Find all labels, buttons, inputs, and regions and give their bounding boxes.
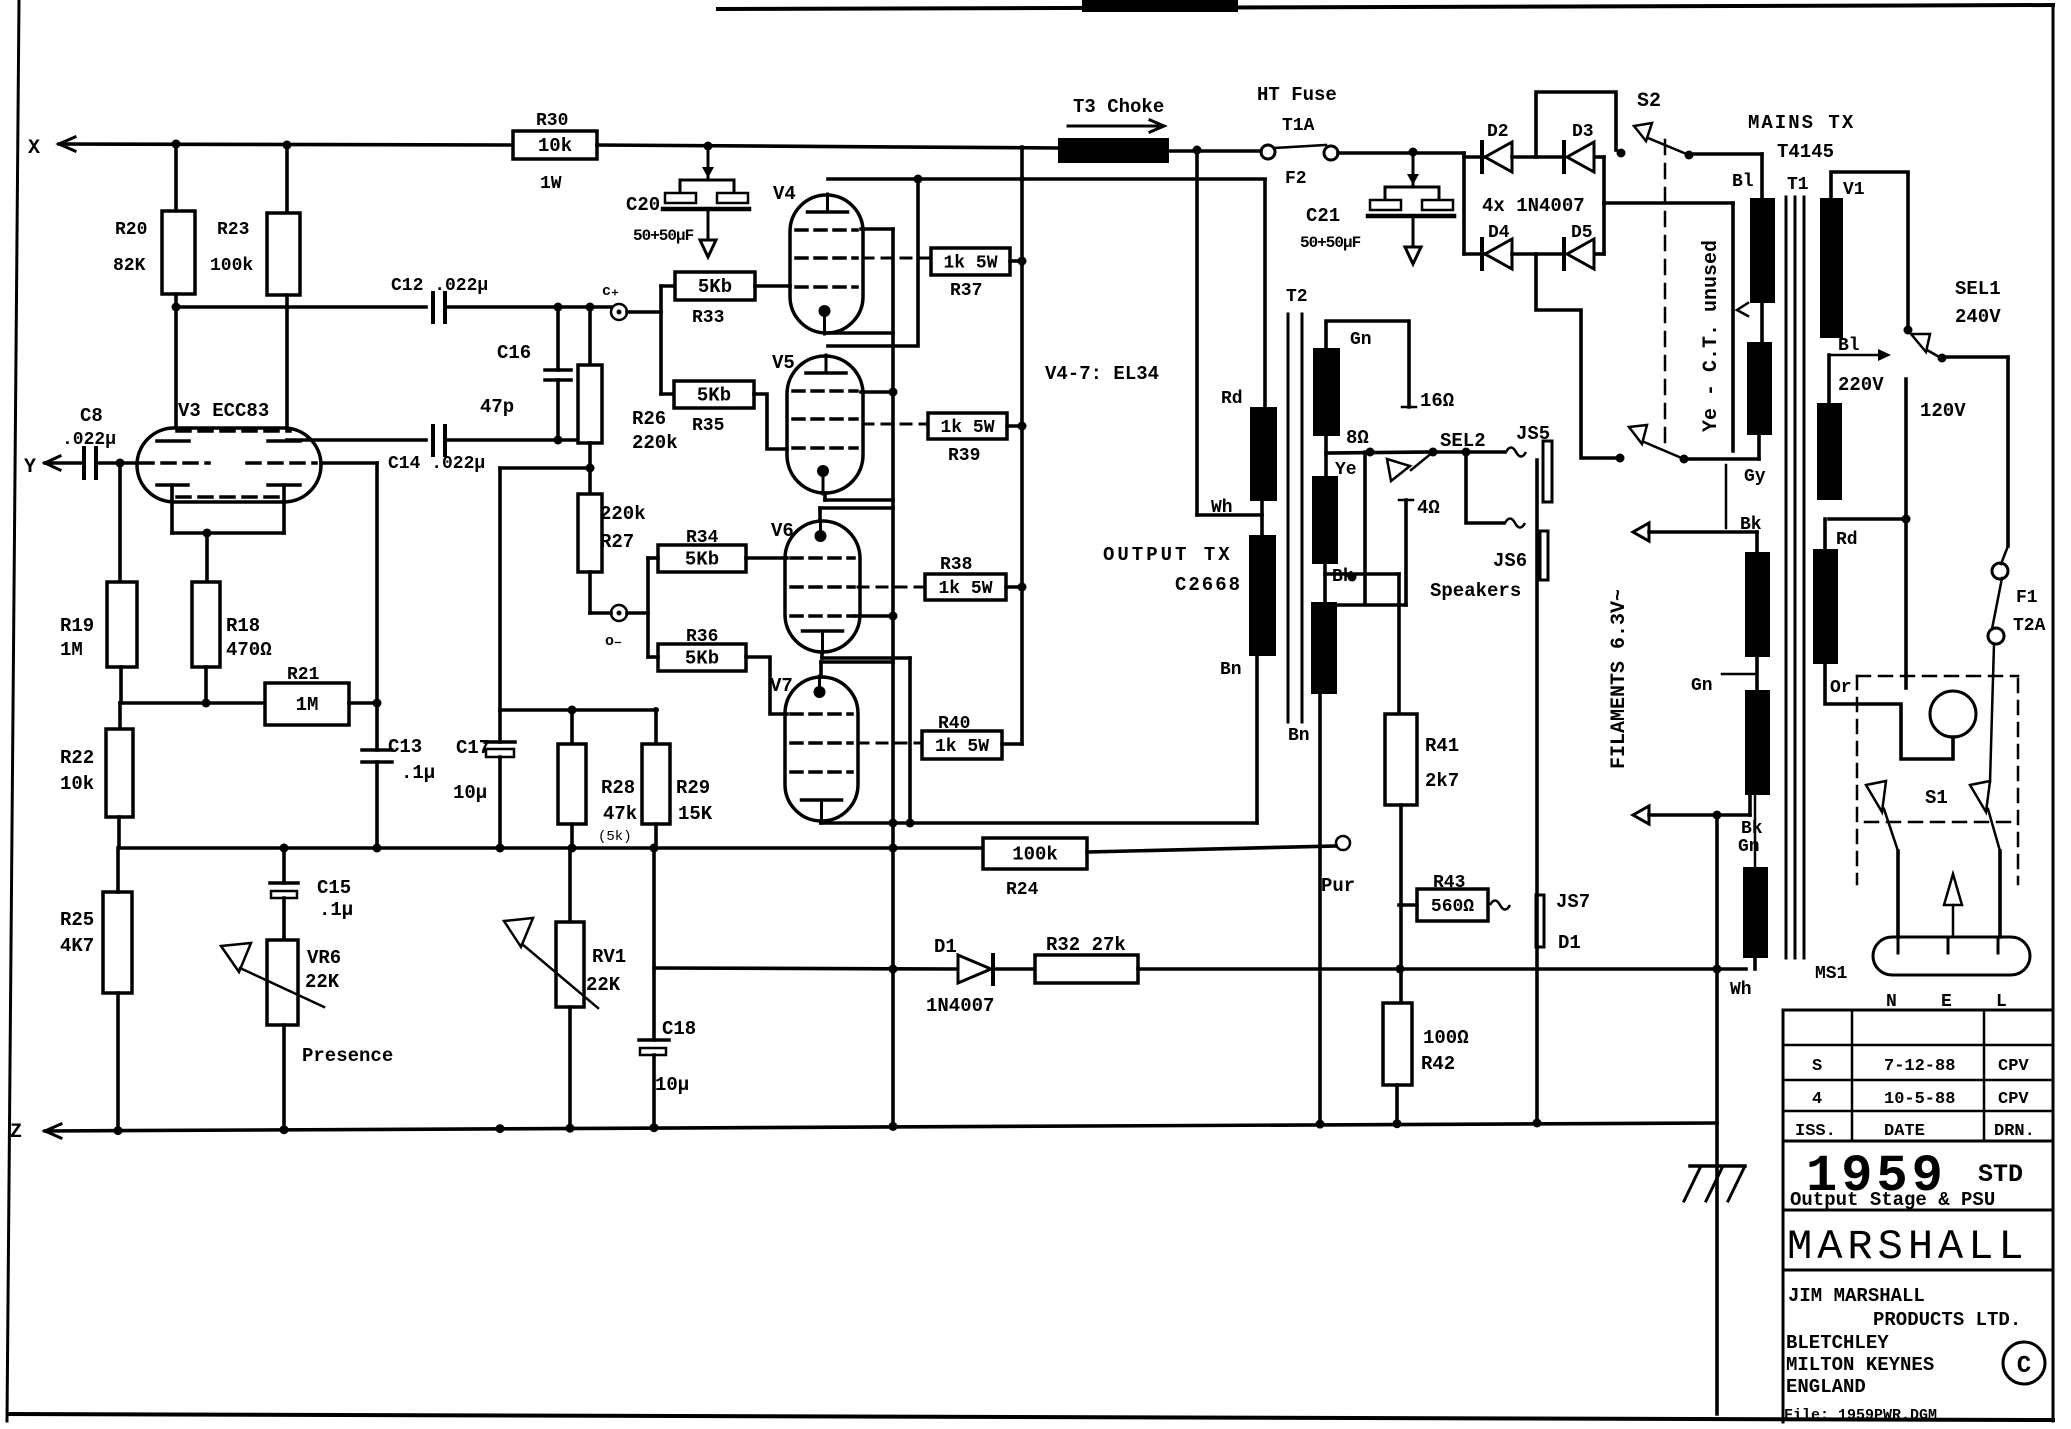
svg-text:C8: C8 — [80, 405, 103, 427]
svg-text:100Ω: 100Ω — [1423, 1027, 1469, 1049]
svg-text:Bk: Bk — [1332, 567, 1354, 587]
svg-text:C12 .022µ: C12 .022µ — [391, 276, 488, 296]
svg-text:.022µ: .022µ — [62, 430, 116, 450]
svg-text:Gn: Gn — [1691, 676, 1713, 696]
svg-text:C: C — [2017, 1353, 2031, 1380]
svg-text:R19: R19 — [60, 615, 94, 637]
svg-text:Z: Z — [10, 1121, 22, 1144]
svg-text:.1µ: .1µ — [319, 899, 353, 921]
svg-text:Ye - C.T. unused: Ye - C.T. unused — [1700, 240, 1723, 432]
svg-text:HT Fuse: HT Fuse — [1257, 84, 1337, 106]
svg-text:4x 1N4007: 4x 1N4007 — [1482, 195, 1585, 217]
svg-text:CPV: CPV — [1998, 1057, 2029, 1076]
svg-text:JIM MARSHALL: JIM MARSHALL — [1788, 1285, 1925, 1307]
svg-text:10k: 10k — [60, 773, 94, 795]
svg-text:MILTON KEYNES: MILTON KEYNES — [1786, 1354, 1934, 1376]
svg-text:R26: R26 — [632, 408, 666, 430]
svg-text:R30: R30 — [536, 111, 568, 131]
svg-text:D1: D1 — [1558, 932, 1581, 954]
svg-text:C20: C20 — [626, 194, 660, 216]
svg-text:S2: S2 — [1637, 90, 1661, 113]
svg-text:V4: V4 — [773, 183, 796, 205]
svg-text:MAINS TX: MAINS TX — [1748, 112, 1855, 134]
svg-text:R20: R20 — [115, 220, 147, 240]
svg-text:Output Stage & PSU: Output Stage & PSU — [1790, 1189, 1995, 1211]
svg-text:R33: R33 — [692, 308, 724, 328]
svg-text:Presence: Presence — [302, 1045, 393, 1067]
svg-text:T3 Choke: T3 Choke — [1073, 96, 1164, 118]
svg-text:R23: R23 — [217, 220, 249, 240]
svg-text:C13: C13 — [388, 736, 422, 758]
svg-text:SEL1: SEL1 — [1955, 278, 2001, 300]
svg-text:F2: F2 — [1285, 169, 1307, 189]
svg-text:1k 5W: 1k 5W — [940, 418, 994, 438]
svg-text:c₊: c₊ — [602, 283, 619, 300]
svg-text:BLETCHLEY: BLETCHLEY — [1786, 1332, 1889, 1354]
svg-text:Bk: Bk — [1740, 515, 1762, 535]
svg-text:D3: D3 — [1572, 122, 1594, 142]
svg-text:Wh: Wh — [1730, 980, 1752, 1000]
svg-text:F1: F1 — [2016, 588, 2038, 608]
svg-text:R22: R22 — [60, 747, 94, 769]
svg-text:D2: D2 — [1487, 122, 1509, 142]
svg-text:220k: 220k — [632, 432, 678, 454]
svg-text:10k: 10k — [538, 135, 572, 157]
svg-text:R24: R24 — [1006, 880, 1039, 900]
svg-text:ISS.: ISS. — [1795, 1122, 1836, 1141]
svg-text:V3 ECC83: V3 ECC83 — [178, 400, 269, 422]
svg-text:8Ω: 8Ω — [1346, 427, 1369, 449]
svg-text:1k 5W: 1k 5W — [943, 254, 997, 274]
svg-text:DATE: DATE — [1884, 1122, 1925, 1141]
svg-text:560Ω: 560Ω — [1431, 897, 1474, 917]
svg-text:FILAMENTS 6.3V~: FILAMENTS 6.3V~ — [1608, 589, 1631, 769]
svg-text:Gn: Gn — [1738, 837, 1760, 857]
svg-text:R27: R27 — [600, 531, 634, 553]
svg-text:V1: V1 — [1843, 180, 1865, 200]
svg-text:C21: C21 — [1306, 205, 1340, 227]
svg-text:5Kb: 5Kb — [685, 648, 719, 670]
svg-text:Y: Y — [24, 456, 36, 479]
svg-text:Gy: Gy — [1744, 467, 1766, 487]
svg-text:T2A: T2A — [2013, 616, 2046, 636]
svg-text:R28: R28 — [601, 777, 635, 799]
svg-text:1W: 1W — [540, 174, 562, 194]
svg-text:V5: V5 — [772, 352, 795, 374]
svg-text:100k: 100k — [210, 256, 253, 276]
svg-text:Bl: Bl — [1838, 336, 1860, 356]
svg-text:JS6: JS6 — [1493, 550, 1527, 572]
svg-text:R42: R42 — [1421, 1053, 1455, 1075]
svg-text:1M: 1M — [296, 694, 319, 716]
svg-text:22K: 22K — [305, 971, 340, 993]
svg-text:Ye: Ye — [1335, 460, 1357, 480]
svg-text:SEL2: SEL2 — [1440, 430, 1486, 452]
svg-text:Rd: Rd — [1221, 389, 1243, 409]
svg-text:S: S — [1812, 1057, 1822, 1076]
svg-text:Speakers: Speakers — [1430, 580, 1521, 602]
svg-text:PRODUCTS LTD.: PRODUCTS LTD. — [1873, 1309, 2021, 1331]
svg-text:OUTPUT TX: OUTPUT TX — [1103, 544, 1233, 566]
svg-text:DRN.: DRN. — [1994, 1122, 2035, 1141]
svg-text:47k: 47k — [603, 803, 637, 825]
svg-text:470Ω: 470Ω — [226, 639, 272, 661]
svg-text:47p: 47p — [480, 396, 514, 418]
svg-text:1k 5W: 1k 5W — [935, 737, 989, 757]
svg-text:D5: D5 — [1571, 223, 1593, 243]
svg-text:10-5-88: 10-5-88 — [1884, 1090, 1955, 1109]
svg-text:R32 27k: R32 27k — [1046, 934, 1126, 956]
svg-text:S1: S1 — [1925, 787, 1948, 809]
svg-text:C14 .022µ: C14 .022µ — [388, 454, 485, 474]
svg-text:STD: STD — [1978, 1160, 2023, 1189]
svg-text:15K: 15K — [678, 803, 713, 825]
svg-text:D1: D1 — [934, 936, 957, 958]
svg-text:5Kb: 5Kb — [698, 276, 732, 298]
svg-text:R25: R25 — [60, 909, 94, 931]
svg-text:Bn: Bn — [1220, 660, 1242, 680]
svg-text:240V: 240V — [1955, 306, 2001, 328]
svg-text:V4-7: EL34: V4-7: EL34 — [1045, 363, 1159, 385]
svg-text:2k7: 2k7 — [1425, 770, 1459, 792]
svg-text:50+50µF: 50+50µF — [1300, 234, 1361, 252]
svg-text:Bk: Bk — [1741, 819, 1763, 839]
svg-text:CPV: CPV — [1998, 1090, 2029, 1109]
svg-text:o₋: o₋ — [605, 633, 622, 650]
svg-text:R39: R39 — [948, 446, 980, 466]
svg-text:100k: 100k — [1012, 844, 1058, 866]
svg-text:Or: Or — [1830, 678, 1852, 698]
svg-text:T2: T2 — [1286, 287, 1308, 307]
svg-text:MS1: MS1 — [1815, 964, 1848, 984]
svg-text:R18: R18 — [226, 615, 260, 637]
svg-text:1M: 1M — [60, 639, 83, 661]
svg-text:.1µ: .1µ — [401, 762, 435, 784]
svg-text:C18: C18 — [662, 1018, 696, 1040]
svg-text:R41: R41 — [1425, 735, 1459, 757]
svg-text:Bn: Bn — [1288, 726, 1310, 746]
svg-text:120V: 120V — [1920, 400, 1966, 422]
svg-text:4K7: 4K7 — [60, 935, 94, 957]
svg-text:RV1: RV1 — [592, 946, 626, 968]
svg-text:C2668: C2668 — [1175, 574, 1242, 596]
svg-text:D4: D4 — [1488, 223, 1510, 243]
svg-text:(5k): (5k) — [598, 829, 632, 845]
svg-text:T1A: T1A — [1282, 116, 1315, 136]
svg-text:16Ω: 16Ω — [1420, 390, 1454, 412]
svg-text:Rd: Rd — [1836, 530, 1858, 550]
svg-text:1N4007: 1N4007 — [926, 995, 994, 1017]
svg-text:X: X — [28, 137, 40, 160]
svg-text:Gn: Gn — [1350, 330, 1372, 350]
svg-text:50+50µF: 50+50µF — [633, 227, 694, 245]
svg-text:R35: R35 — [692, 416, 724, 436]
svg-text:Wh: Wh — [1211, 498, 1233, 518]
svg-text:1k 5W: 1k 5W — [938, 579, 992, 599]
svg-text:R38: R38 — [940, 555, 972, 575]
svg-text:5Kb: 5Kb — [685, 549, 719, 571]
svg-text:5Kb: 5Kb — [697, 385, 731, 407]
svg-text:C15: C15 — [317, 877, 351, 899]
svg-text:T1: T1 — [1787, 175, 1809, 195]
svg-text:File: 1959PWR.DGM: File: 1959PWR.DGM — [1784, 1407, 1937, 1424]
svg-text:VR6: VR6 — [307, 947, 341, 969]
svg-text:22K: 22K — [586, 974, 621, 996]
svg-text:C16: C16 — [497, 342, 531, 364]
svg-text:MARSHALL: MARSHALL — [1787, 1223, 2029, 1271]
svg-text:JS7: JS7 — [1556, 891, 1590, 913]
svg-text:T4145: T4145 — [1777, 141, 1834, 163]
svg-text:7-12-88: 7-12-88 — [1884, 1057, 1955, 1076]
svg-text:10µ: 10µ — [453, 782, 487, 804]
svg-text:Bl: Bl — [1732, 172, 1754, 192]
svg-text:Pur: Pur — [1321, 875, 1355, 897]
svg-text:R29: R29 — [676, 777, 710, 799]
svg-text:10µ: 10µ — [655, 1074, 689, 1096]
svg-text:4Ω: 4Ω — [1417, 497, 1440, 519]
svg-text:220V: 220V — [1838, 374, 1884, 396]
svg-text:R37: R37 — [950, 281, 982, 301]
svg-text:4: 4 — [1812, 1090, 1822, 1109]
svg-text:220k: 220k — [600, 503, 646, 525]
svg-text:82K: 82K — [113, 256, 146, 276]
svg-text:ENGLAND: ENGLAND — [1786, 1376, 1866, 1398]
